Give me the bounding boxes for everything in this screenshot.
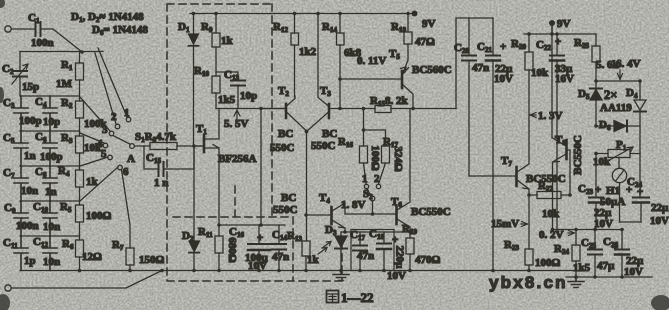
diode D3 photodiode	[318, 224, 347, 271]
resistor R6	[62, 222, 102, 263]
svg-text:1M: 1M	[56, 78, 73, 90]
svg-text:10n: 10n	[43, 221, 60, 233]
svg-text:1k: 1k	[221, 35, 234, 47]
svg-text:10V: 10V	[494, 73, 513, 85]
resistor R22	[529, 180, 570, 220]
wire meter bottom	[620, 221, 642, 223]
svg-text:16V: 16V	[555, 73, 574, 85]
capacitor C23	[578, 154, 613, 230]
svg-text:5. 5V: 5. 5V	[224, 118, 249, 130]
wire drain rail with 5.5V	[216, 108, 286, 110]
resistor R9	[201, 14, 234, 77]
capacitor C8	[35, 166, 57, 201]
svg-text:10n: 10n	[21, 185, 38, 197]
svg-text:22µ: 22µ	[651, 202, 669, 214]
svg-text:15mV: 15mV	[491, 218, 519, 230]
svg-text:1. 3V: 1. 3V	[538, 110, 563, 122]
node 1.3V	[530, 110, 563, 122]
wire 0.2V rail	[553, 229, 624, 231]
capacitor C3	[3, 96, 42, 131]
wire 9V rail 2	[524, 33, 596, 35]
resistor R5	[60, 187, 112, 222]
svg-text:1k5: 1k5	[218, 94, 236, 106]
resistor R17	[364, 130, 405, 172]
resistor R7	[112, 170, 165, 271]
svg-text:0. 11V: 0. 11V	[357, 55, 386, 67]
capacitor C1	[28, 12, 54, 49]
capacitor C20	[454, 18, 489, 176]
screen box around C17 C18	[351, 230, 394, 271]
svg-text:10p: 10p	[240, 90, 257, 102]
svg-text:220µ: 220µ	[394, 246, 406, 270]
svg-text:BC550C: BC550C	[411, 206, 451, 218]
node junction	[80, 50, 84, 54]
svg-text:6. 4V: 6. 4V	[616, 58, 641, 70]
svg-text:47µ: 47µ	[597, 260, 615, 272]
svg-text:550C: 550C	[273, 204, 298, 216]
resistor R16	[338, 109, 381, 171]
svg-text:1k2: 1k2	[299, 46, 317, 58]
caption figure 1-22	[327, 290, 374, 305]
capacitor C5	[3, 131, 36, 166]
node 9V supply 1	[412, 11, 436, 31]
svg-text:9V: 9V	[557, 18, 571, 30]
transistor T4	[273, 192, 366, 232]
transistor T7 BC550C	[501, 70, 566, 249]
wire detector top rail	[596, 80, 640, 82]
svg-text:+: +	[392, 234, 398, 246]
transistor T5 BC560C	[340, 48, 452, 109]
capacitor C9	[4, 201, 39, 236]
svg-text:47n: 47n	[472, 62, 489, 74]
svg-text:BC560C: BC560C	[412, 64, 452, 76]
switch contact 6	[118, 165, 123, 170]
ground under D3	[333, 271, 349, 281]
svg-text:1k5: 1k5	[573, 262, 591, 274]
wire T7 base	[469, 175, 516, 177]
transistor T8 BC550C	[552, 23, 584, 230]
svg-text:1p: 1p	[24, 255, 36, 267]
svg-text:1 n: 1 n	[154, 177, 168, 189]
wire	[11, 28, 34, 30]
transistor T6 BC550C	[391, 109, 451, 239]
svg-text:2×: 2×	[604, 88, 617, 102]
resistor R14	[322, 14, 362, 109]
wire to coupling caps	[456, 18, 493, 109]
switch contact 4	[103, 143, 108, 148]
svg-text:+: +	[555, 36, 561, 48]
svg-text:1: 1	[124, 107, 130, 119]
switch contact 5	[108, 155, 113, 160]
node 15mV	[491, 218, 528, 230]
svg-text:100n: 100n	[31, 37, 54, 49]
svg-text:10n: 10n	[43, 256, 60, 268]
switch S2 contacts 1 2	[362, 163, 386, 189]
svg-text:10V: 10V	[624, 266, 643, 278]
resistor R20	[511, 34, 549, 79]
node common emitters	[305, 130, 309, 134]
transistor T3 BC550C	[307, 14, 337, 153]
input terminal bottom	[5, 285, 11, 291]
svg-text:47n: 47n	[357, 250, 374, 262]
svg-text:10k: 10k	[542, 208, 560, 220]
capacitor C18 electrolytic	[369, 228, 406, 282]
capacitor C25	[581, 230, 615, 278]
wire 9V top rail	[190, 13, 416, 15]
node gate junction	[192, 144, 196, 148]
wire top rail	[20, 51, 103, 53]
wire ground rail	[20, 270, 581, 272]
svg-text:470Ω: 470Ω	[415, 254, 441, 266]
resistor R25	[574, 34, 620, 81]
svg-text:550C: 550C	[311, 140, 336, 152]
resistor R4	[58, 153, 99, 188]
capacitor C21 electrolytic	[477, 18, 513, 271]
svg-text:R158. 2k: R158. 2k	[370, 95, 408, 108]
svg-text:550C: 550C	[270, 142, 295, 154]
wire T4 collector / S2 / T6 base	[345, 213, 396, 215]
svg-text:680Ω: 680Ω	[226, 237, 238, 263]
svg-text:+: +	[612, 242, 618, 254]
node 0.2V	[539, 229, 575, 241]
capacitor C11	[3, 236, 36, 271]
svg-text:+: +	[500, 41, 506, 53]
resistor R19	[402, 223, 441, 271]
junction dots on rails	[78, 12, 642, 279]
diode D4	[626, 81, 646, 197]
svg-text:1k: 1k	[307, 254, 320, 266]
svg-text:1n: 1n	[24, 150, 36, 162]
svg-text:100p: 100p	[19, 115, 42, 127]
resistor R23	[504, 239, 561, 271]
svg-text:47n: 47n	[272, 251, 289, 263]
svg-text:0. 2V: 0. 2V	[539, 229, 564, 241]
svg-text:324Ω: 324Ω	[392, 146, 404, 172]
svg-text:5: 5	[101, 148, 107, 160]
wire	[11, 271, 162, 289]
potentiometer P1	[593, 139, 640, 168]
resistor R15	[330, 95, 456, 113]
diode D5	[578, 81, 602, 126]
svg-text:100Ω: 100Ω	[369, 145, 381, 171]
capacitor C10	[33, 201, 60, 236]
svg-text:1: 1	[362, 173, 368, 185]
switch S2 pivot	[363, 188, 375, 214]
svg-text:ybx8.cn: ybx8.cn	[489, 273, 568, 292]
svg-text:10p: 10p	[43, 116, 60, 128]
svg-text:D1, D2≈ 1N4148: D1, D2≈ 1N4148	[71, 11, 144, 24]
svg-text:+: +	[637, 186, 643, 198]
capacitor C22 electrolytic	[536, 34, 574, 230]
svg-text:+: +	[257, 232, 263, 244]
resistor R8 with S1 label	[134, 131, 203, 150]
svg-text:47Ω: 47Ω	[415, 36, 435, 48]
svg-text:1. 8V: 1. 8V	[341, 199, 366, 211]
svg-text:9V: 9V	[422, 18, 436, 30]
svg-text:2: 2	[111, 111, 117, 123]
svg-text:100Ω: 100Ω	[86, 210, 112, 222]
input terminal top	[5, 26, 11, 32]
svg-text:1—22: 1—22	[341, 290, 374, 305]
svg-text:15p: 15p	[22, 81, 39, 93]
svg-text:1n: 1n	[45, 186, 57, 198]
resistor R1	[56, 52, 84, 91]
svg-text:100n: 100n	[16, 220, 39, 232]
switch contact 1	[126, 117, 131, 122]
capacitor C6	[35, 131, 63, 166]
svg-text:10k: 10k	[531, 67, 549, 79]
diode D2	[182, 146, 200, 271]
capacitor C24	[627, 176, 669, 227]
node 9V supply 2	[549, 18, 571, 34]
capacitor C7	[3, 166, 38, 201]
transistor T1 BF256A	[194, 109, 257, 236]
svg-text:100p: 100p	[40, 151, 63, 163]
svg-text:BF256A: BF256A	[218, 153, 257, 165]
capacitor C14	[272, 225, 289, 271]
wire source rail	[219, 224, 285, 226]
resistor R24	[554, 230, 591, 278]
wire row rails	[20, 96, 80, 236]
svg-text:BC550C: BC550C	[572, 135, 584, 175]
resistor R2	[61, 80, 108, 130]
switch S1 pivot node A	[114, 136, 135, 165]
capacitor C2 (trimmer)	[2, 52, 39, 97]
svg-text:BC: BC	[322, 128, 337, 140]
transistor T2 BC550C	[261, 85, 307, 154]
svg-text:150Ω: 150Ω	[139, 254, 165, 266]
switch contact 2	[115, 124, 120, 129]
svg-text:BC: BC	[278, 128, 293, 140]
svg-text:100Ω: 100Ω	[535, 257, 561, 269]
wire	[79, 257, 81, 271]
svg-text:BC: BC	[281, 192, 296, 204]
resistor R3	[61, 118, 102, 154]
diode D1	[178, 14, 199, 147]
svg-text:10V: 10V	[594, 218, 613, 230]
svg-text:12Ω: 12Ω	[82, 251, 102, 263]
svg-text:10V: 10V	[650, 215, 669, 227]
svg-text:3: 3	[102, 124, 108, 136]
svg-text:2: 2	[374, 173, 380, 185]
wire T1 drain to T2 base	[260, 109, 262, 226]
switch contact 3	[109, 131, 114, 136]
capacitor C15 bypass	[144, 146, 194, 189]
resistor R13	[287, 132, 320, 271]
wire switch fan	[80, 48, 127, 201]
resistor R10	[194, 65, 236, 109]
capacitor C13	[216, 69, 257, 109]
wire	[42, 29, 83, 52]
ground symbol right	[568, 277, 584, 288]
capacitor C17	[350, 229, 374, 271]
wire emitter rail	[341, 231, 410, 233]
dashed shield box	[167, 4, 342, 281]
meter M 50uA	[595, 158, 632, 223]
node 6.4V	[616, 58, 641, 80]
resistor R11	[198, 226, 238, 271]
svg-text:6: 6	[123, 166, 129, 178]
svg-text:10V: 10V	[387, 270, 406, 282]
svg-text:A: A	[127, 153, 135, 165]
diode D6	[596, 119, 640, 132]
capacitor C12	[33, 236, 60, 271]
capacitor C26 electrolytic	[603, 230, 644, 279]
capacitor C16 electrolytic	[229, 225, 270, 272]
wire bottom rail right	[566, 276, 652, 278]
svg-text:AA119: AA119	[600, 102, 632, 114]
resistor R12	[273, 14, 317, 98]
resistor R18	[391, 14, 435, 74]
capacitor C4	[35, 96, 60, 131]
